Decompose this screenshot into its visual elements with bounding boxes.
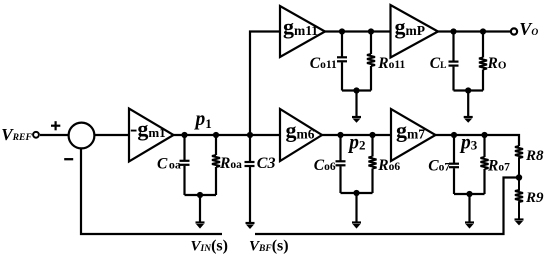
node dot CL [450, 28, 456, 34]
junction dot Coa Roa [197, 192, 203, 198]
wire summer minus feedback [81, 148, 222, 234]
svg-text:Coa: Coa [157, 155, 181, 172]
op-amp gm11 [280, 6, 325, 57]
junction dot CL RO [465, 87, 471, 93]
terminal VO [511, 28, 517, 34]
ground below Co11 Ro11 [352, 91, 361, 123]
node dot Co11 [339, 28, 345, 34]
wire gm7 output to R8 [434, 135, 520, 146]
ground below CL RO [464, 91, 473, 123]
wire gm1 output to gm6 input [172, 134, 280, 136]
capacitor Co6 [336, 135, 346, 193]
resistor RO [479, 32, 487, 91]
wire VREF to summer [40, 134, 68, 136]
svg-text:R9: R9 [525, 190, 544, 206]
junction dot Co6 Ro6 [353, 190, 359, 196]
node p3 dot [451, 132, 457, 138]
wire gm11 output to gmP input [323, 30, 391, 32]
terminal VREF [33, 132, 39, 138]
wire summer to gm1 [95, 134, 129, 136]
junction dot R8 R9 [516, 174, 522, 180]
node p2 dot [337, 132, 343, 138]
capacitor CL [449, 32, 459, 91]
minus sign [64, 158, 73, 160]
node p1 dot [181, 132, 187, 138]
op-amp gmP [391, 5, 439, 58]
node dot RO [480, 28, 486, 34]
wire common node Co7 Ro7 [454, 193, 485, 195]
capacitor Co11 [337, 32, 347, 91]
ground below R9 [515, 220, 524, 226]
op-amp gm7 [391, 109, 436, 161]
resistor Ro6 [369, 135, 377, 193]
node dot Roa [213, 132, 219, 138]
op-amp gm6 [280, 109, 322, 161]
summing junction [69, 123, 95, 149]
wire gmP output to VO terminal [436, 30, 511, 32]
ground below Coa Roa [196, 195, 205, 229]
capacitor Co7 [449, 135, 459, 194]
svg-text:R8: R8 [525, 148, 544, 164]
resistor Roa [212, 135, 220, 195]
capacitor C3 [245, 135, 255, 223]
op-amp gm1 [129, 109, 174, 162]
wire common node Co6 Ro6 [341, 192, 373, 194]
wire feedback tap from R8 R9 junction [255, 178, 519, 235]
node dot Ro6 [369, 132, 375, 138]
resistor Ro11 [367, 32, 375, 91]
ground below Co7 Ro7 [465, 194, 474, 229]
junction dot Co11 Ro11 [353, 87, 359, 93]
wire gm6 output to gm7 input [320, 134, 391, 136]
wire p1 node up to gm11 input [250, 32, 280, 136]
wire common node Co11 Ro11 [342, 89, 371, 91]
junction dot Co7 Ro7 [466, 191, 472, 197]
plus sign [51, 121, 60, 130]
resistor R8 [515, 146, 523, 178]
capacitor Coa [180, 135, 190, 195]
node dot Ro11 [368, 28, 374, 34]
node dot C3 junction [247, 132, 253, 138]
wire common node Coa Roa [185, 194, 217, 196]
ground below Co6 Ro6 [352, 193, 361, 229]
resistor R9 [515, 178, 523, 220]
node dot Ro7 [481, 132, 487, 138]
resistor Ro7 [481, 135, 489, 194]
svg-text:C3: C3 [257, 155, 276, 172]
ground below C3 [246, 223, 255, 229]
wire common node CL RO [454, 89, 484, 91]
